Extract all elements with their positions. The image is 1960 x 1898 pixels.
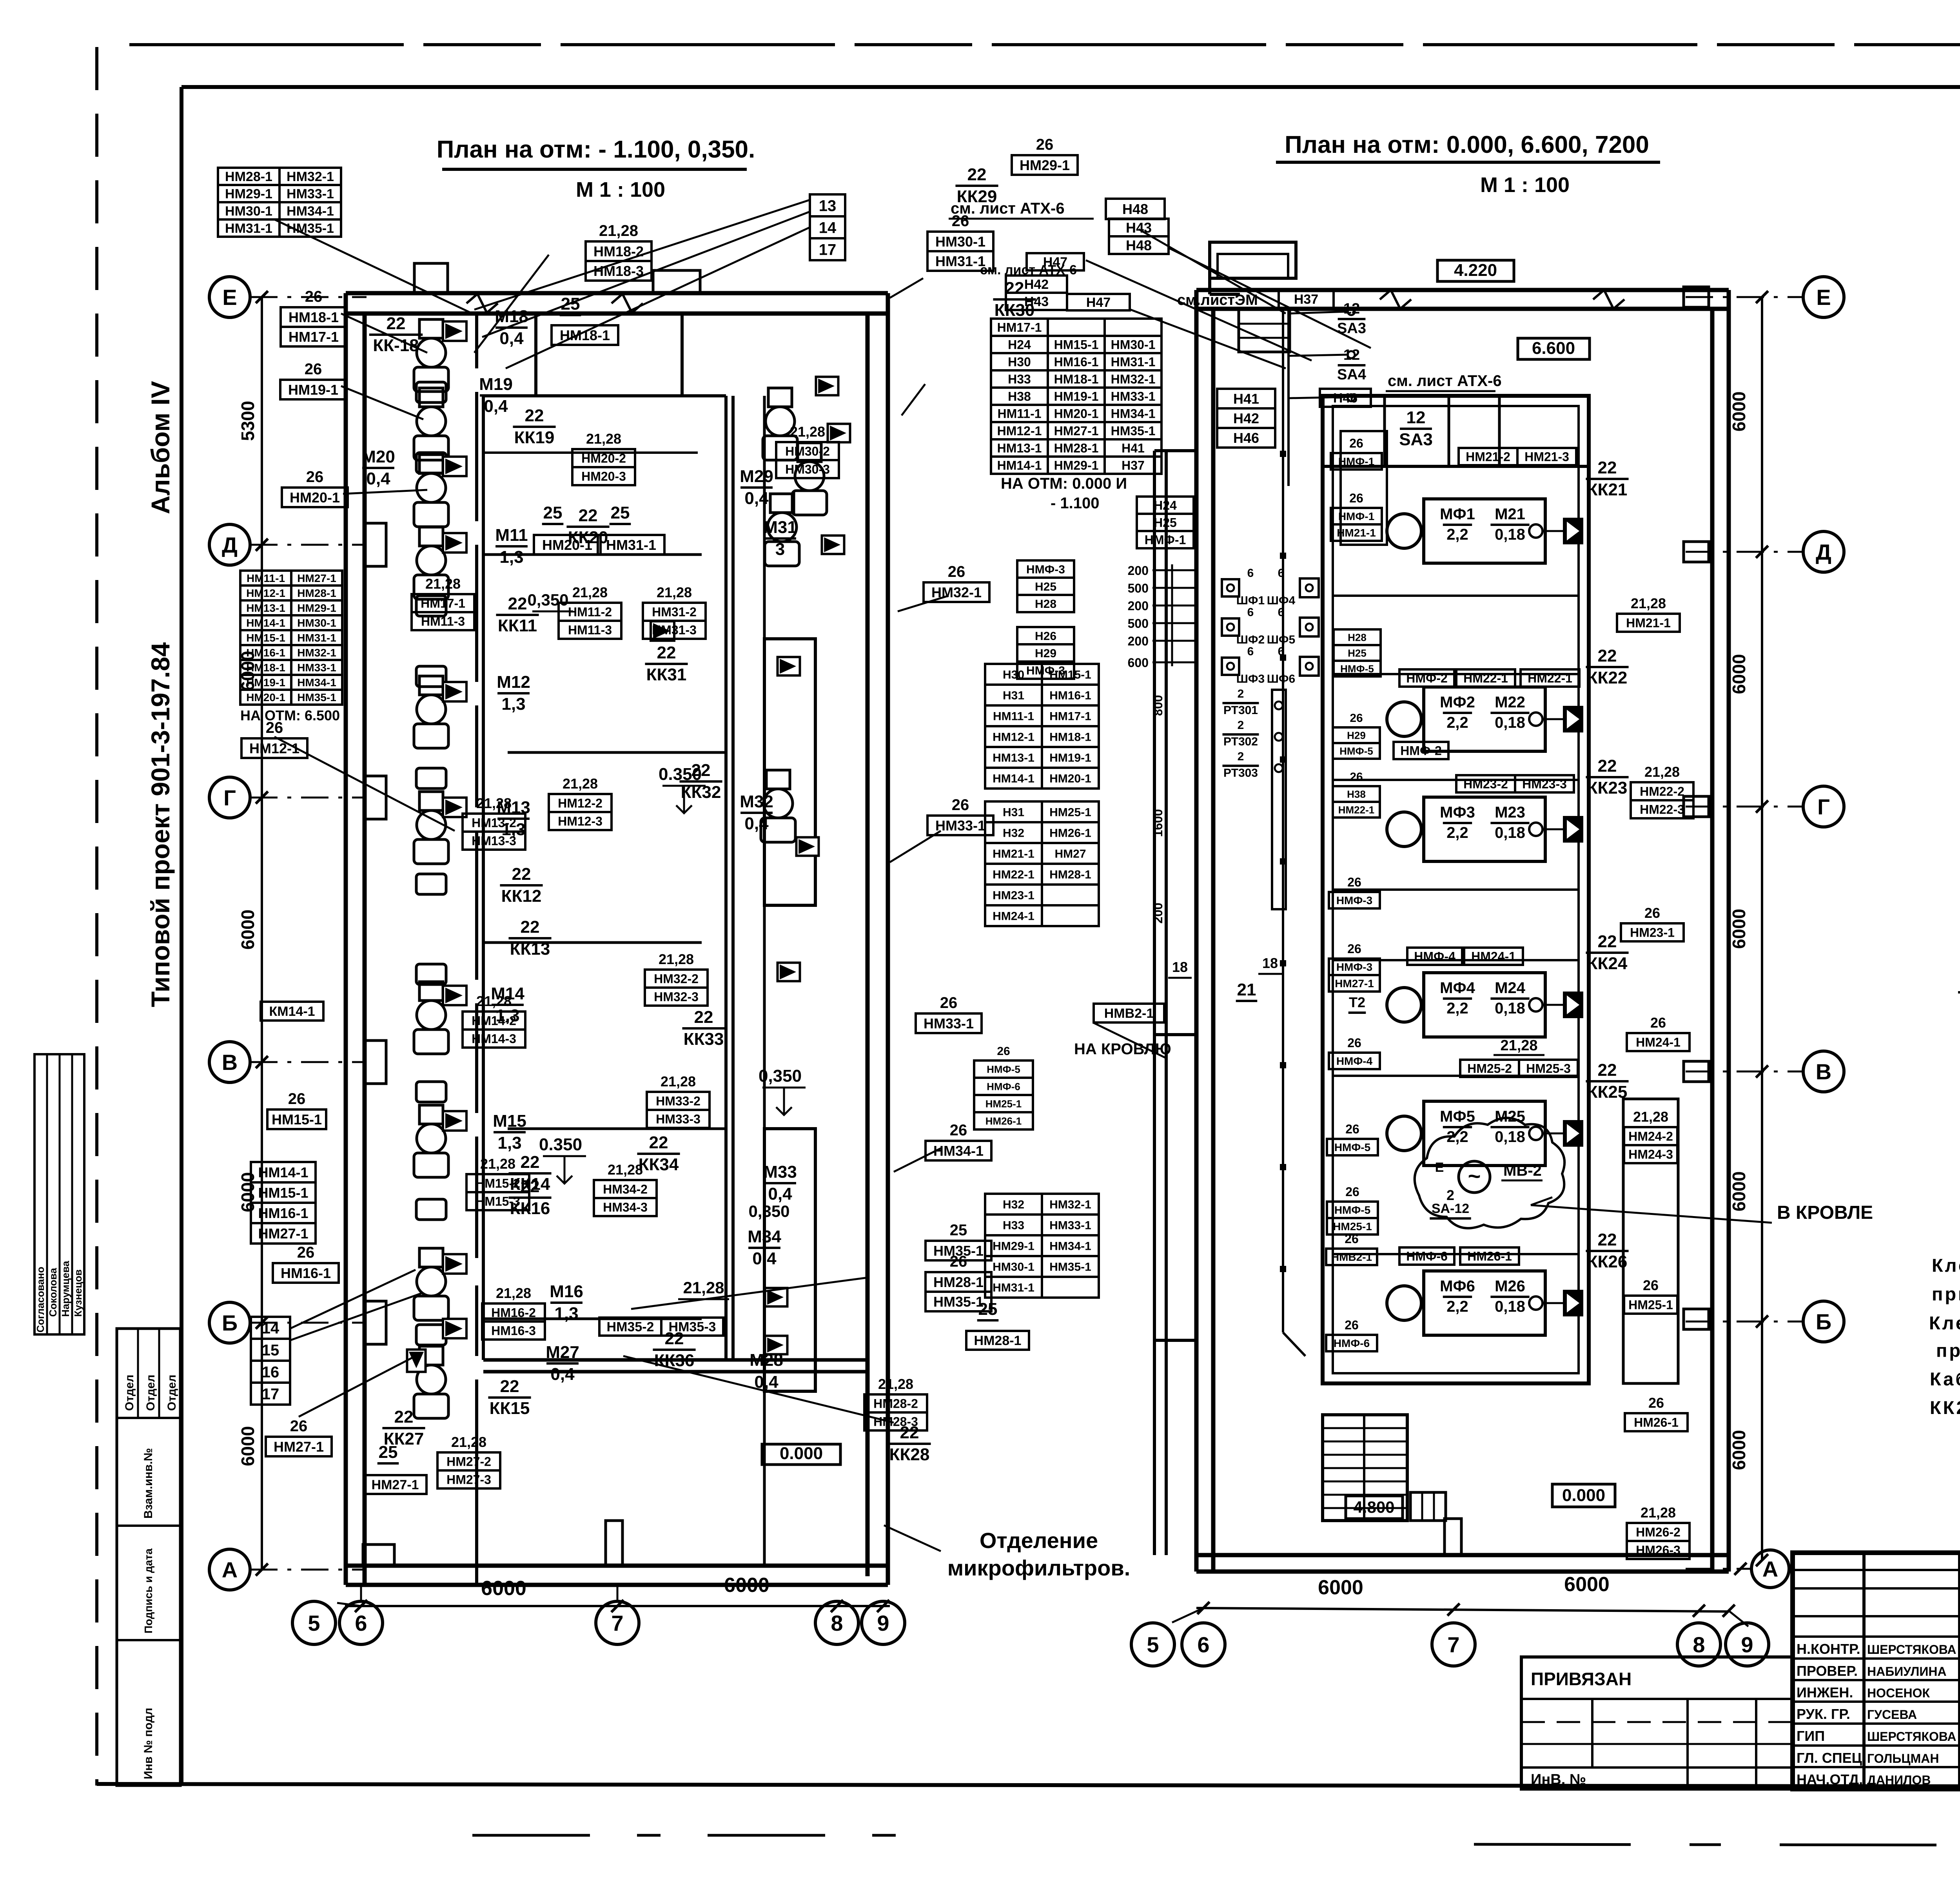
svg-text:НМ17-1: НМ17-1 [997,321,1042,335]
svg-text:26: 26 [1644,905,1660,921]
svg-text:0,4: 0,4 [499,329,524,348]
svg-text:Н33: Н33 [1008,372,1031,386]
frame top inner line [181,85,1960,89]
svg-text:НМ27-1: НМ27-1 [258,1225,308,1242]
НМВ2-1 на кровлю [1094,1004,1164,1022]
right plan top wall [1196,288,1729,292]
left plan right bay wall [763,396,766,639]
left plan roof stack rects above top wall [414,263,448,293]
svg-text:Инв № подл: Инв № подл [142,1708,155,1779]
svg-text:КК33: КК33 [684,1030,724,1049]
svg-text:22: 22 [512,865,531,884]
svg-text:21,28: 21,28 [1500,1037,1537,1054]
svg-text:Н41: Н41 [1233,391,1259,407]
frame top outer line [129,43,1960,46]
svg-text:Н43: Н43 [1126,219,1152,236]
svg-text:0,18: 0,18 [1495,526,1525,543]
bottom small column right plan [1445,1519,1461,1555]
svg-text:НМ19-1: НМ19-1 [246,676,285,689]
svg-text:М20: М20 [361,447,395,466]
microfilter МФ6 [1424,1271,1545,1335]
elevation box 4.220 above top wall [1437,260,1514,281]
svg-text:НАБИУЛИНА: НАБИУЛИНА [1867,1664,1947,1679]
svg-text:200: 200 [1128,599,1149,613]
svg-text:26: 26 [997,1045,1010,1058]
svg-text:В: В [1816,1059,1831,1084]
svg-text:21,28: 21,28 [599,222,638,239]
svg-text:НМ35-2: НМ35-2 [607,1320,654,1334]
svg-text:НМ13-2: НМ13-2 [472,816,516,830]
svg-text:НМ15-1: НМ15-1 [246,632,285,644]
svg-text:НМ33-1: НМ33-1 [287,187,334,201]
cluster table B [985,664,1042,685]
svg-text:5300: 5300 [238,401,258,441]
svg-text:НМ25-1: НМ25-1 [1049,806,1091,819]
svg-text:НМ19-1: НМ19-1 [288,382,338,398]
left margin approval block Согласовано [34,1054,84,1334]
axis line Д left plan [250,544,367,546]
svg-text:2,2: 2,2 [1446,1298,1468,1315]
svg-text:НМ35-3: НМ35-3 [669,1320,716,1334]
right plan bottom dim line [1196,1608,1729,1612]
microfilter МФ5 [1424,1101,1545,1166]
svg-text:НМ35-1: НМ35-1 [1111,424,1156,438]
svg-text:ШФ2: ШФ2 [1236,633,1265,646]
svg-text:КК22: КК22 [1587,668,1628,687]
svg-text:SA-12: SA-12 [1432,1201,1469,1216]
svg-text:НМ21-1: НМ21-1 [1337,527,1376,539]
svg-text:НМ12-1: НМ12-1 [993,731,1034,743]
svg-text:НМ20-1: НМ20-1 [542,537,592,553]
svg-text:26: 26 [1349,436,1363,450]
left plan big label table top-left [218,168,279,185]
svg-text:НМ20-1: НМ20-1 [1054,407,1099,421]
cable junction hooks [1348,308,1355,315]
svg-text:НМ11-1: НМ11-1 [993,710,1034,723]
svg-text:НМ28-1: НМ28-1 [974,1333,1022,1348]
left plan right bay tank 2 [764,1129,815,1391]
svg-text:НМ32-1: НМ32-1 [1111,372,1156,386]
svg-text:6000: 6000 [1729,1430,1749,1470]
svg-text:Н25: Н25 [1348,647,1367,659]
svg-text:Типовой проект 901-3-197.8: Типовой проект 901-3-197.84 [146,642,175,1007]
svg-text:Н41: Н41 [1122,441,1145,455]
svg-text:18: 18 [1262,955,1278,971]
elevation box 0.000 right plan [1552,1484,1615,1507]
left plan pump chain extra bodies [416,382,446,402]
elevation box 4.800 [1346,1496,1403,1519]
svg-text:ШФ4: ШФ4 [1267,594,1296,607]
svg-text:НМ31-3: НМ31-3 [652,623,697,637]
svg-text:18: 18 [1172,959,1188,975]
svg-text:13: 13 [819,197,837,214]
svg-text:План на отм: - 1.100, 0,350: План на отм: - 1.100, 0,350. [437,136,755,163]
svg-text:Е: Е [1816,285,1831,310]
svg-text:МФ6: МФ6 [1440,1278,1475,1295]
svg-text:26: 26 [940,994,958,1012]
svg-text:ГУСЕВА: ГУСЕВА [1867,1708,1917,1722]
svg-text:КК28: КК28 [889,1445,930,1464]
machine hall inner walls [1323,396,1589,1383]
svg-text:Н47: Н47 [1086,295,1111,310]
svg-text:26: 26 [1345,1232,1359,1246]
svg-text:ПРОВЕР.: ПРОВЕР. [1797,1663,1858,1679]
svg-text:21,28: 21,28 [1633,1109,1668,1125]
svg-text:НМ26-1: НМ26-1 [1634,1416,1679,1430]
svg-text:НМ23-1: НМ23-1 [1630,926,1675,940]
svg-text:26: 26 [1347,1036,1361,1050]
svg-text:1,3: 1,3 [497,1133,521,1153]
svg-text:М32: М32 [740,792,773,811]
svg-text:НМВ2-1: НМВ2-1 [1331,1251,1372,1263]
svg-text:Д: Д [222,533,238,557]
svg-text:НМФ-5: НМФ-5 [1334,1204,1370,1216]
svg-text:НМ29-1: НМ29-1 [297,602,336,614]
svg-text:Кабель к клеммным коробка: Кабель к клеммным коробкам КК11÷ КК16, К… [1930,1369,1960,1389]
svg-text:26: 26 [948,563,965,580]
svg-text:ШЕРСТЯКОВА: ШЕРСТЯКОВА [1867,1729,1956,1744]
svg-text:25: 25 [561,294,580,314]
svg-text:2: 2 [1238,687,1244,700]
svg-text:Н48: Н48 [1122,201,1148,217]
svg-text:МФ5: МФ5 [1440,1108,1475,1125]
svg-text:ШФ5: ШФ5 [1267,633,1295,646]
svg-text:22: 22 [500,1377,519,1396]
svg-text:26: 26 [290,1418,308,1435]
title block signature rows [1793,1657,1960,1660]
svg-text:ИНЖЕН.: ИНЖЕН. [1797,1684,1853,1700]
svg-text:КК12: КК12 [501,886,542,906]
right wall pilaster tabs at grid rows [1684,287,1709,307]
svg-text:НМ16-1: НМ16-1 [246,647,285,659]
svg-text:22: 22 [521,1153,540,1172]
svg-text:НМ14-1: НМ14-1 [246,617,285,629]
svg-text:2: 2 [1446,1187,1454,1203]
svg-text:Соколова: Соколова [47,1268,59,1317]
svg-text:НМ27: НМ27 [1054,847,1086,860]
svg-text:НМ32-2: НМ32-2 [654,972,699,986]
svg-text:ШФ1: ШФ1 [1236,594,1265,607]
привязан table [1521,1657,1793,1789]
cluster leader lines [1086,260,1312,361]
svg-text:Н43: Н43 [1024,294,1049,309]
svg-text:НМ28-1: НМ28-1 [1054,441,1099,455]
svg-text:НМ34-1: НМ34-1 [1111,407,1156,421]
svg-text:Н38: Н38 [1008,390,1031,404]
svg-text:22: 22 [387,314,406,333]
svg-text:НМ13-3: НМ13-3 [472,834,516,848]
svg-text:Н46: Н46 [1233,430,1259,446]
left plan grid axis circles [209,277,250,317]
svg-text:НМФ-5: НМФ-5 [1340,663,1374,674]
svg-text:НМ18-1: НМ18-1 [289,309,339,325]
svg-text:0,18: 0,18 [1495,1128,1525,1146]
svg-text:22: 22 [1598,756,1617,776]
svg-text:17: 17 [262,1385,279,1403]
svg-text:НМ31-2: НМ31-2 [652,605,697,619]
left plan central hall left wall [482,396,485,1360]
svg-text:16: 16 [262,1363,279,1381]
microfilter МФ4 [1424,973,1545,1037]
svg-text:26: 26 [1036,136,1054,153]
svg-text:500: 500 [1128,616,1149,631]
svg-text:21,28: 21,28 [480,1156,515,1172]
svg-text:4.800: 4.800 [1353,1498,1394,1516]
svg-text:НМ21-2: НМ21-2 [1466,450,1510,464]
svg-text:ДАНИЛОВ: ДАНИЛОВ [1867,1773,1931,1787]
svg-text:12: 12 [1406,408,1426,427]
left plan bottom wall columns [363,1545,394,1566]
svg-text:НМ28-2: НМ28-2 [873,1397,918,1411]
svg-text:План на отм: 0.000, 6.600: План на отм: 0.000, 6.600, 7200 [1285,131,1649,158]
svg-text:Н25: Н25 [1154,516,1177,530]
svg-text:НМ15-1: НМ15-1 [1054,338,1099,352]
svg-text:12: 12 [1343,347,1360,363]
svg-text:НМВ2-1: НМВ2-1 [1104,1006,1154,1021]
svg-text:26: 26 [305,361,322,378]
svg-text:М12: М12 [497,673,530,692]
svg-text:26: 26 [1347,942,1361,956]
svg-text:6: 6 [355,1611,367,1635]
cluster: Н43 Н48 stack [1109,219,1169,236]
svg-text:6000: 6000 [1729,392,1749,431]
svg-text:НМ30-1: НМ30-1 [297,617,336,629]
right plan vertical dim chain [1761,297,1763,1560]
svg-text:26: 26 [297,1244,315,1261]
svg-text:21,28: 21,28 [657,584,692,600]
svg-text:Н32: Н32 [1003,827,1024,839]
svg-text:2,2: 2,2 [1446,526,1468,543]
svg-text:0,350: 0,350 [748,1202,789,1220]
svg-text:НМ17-1: НМ17-1 [1049,710,1091,723]
svg-text:Кузнецов: Кузнецов [72,1269,84,1317]
svg-text:Н46: Н46 [1333,391,1357,406]
svg-text:Б: Б [1816,1309,1831,1334]
svg-text:НМ20-3: НМ20-3 [581,470,626,484]
svg-text:Альбом IV: Альбом IV [146,381,175,514]
svg-text:НМ29-1: НМ29-1 [225,187,272,201]
svg-text:Подпись и дата: Подпись и дата [142,1548,154,1633]
svg-text:1,3: 1,3 [554,1304,578,1323]
svg-text:6: 6 [1278,567,1285,580]
svg-text:НА КРОВЛЮ: НА КРОВЛЮ [1074,1041,1171,1058]
svg-text:КК34: КК34 [639,1155,679,1174]
svg-text:НМ27-1: НМ27-1 [1054,424,1099,438]
svg-text:21,28: 21,28 [661,1073,696,1089]
title block upper small rows [1793,1569,1960,1571]
svg-text:НМФ-3: НМФ-3 [1336,894,1372,906]
svg-text:НМ32-1: НМ32-1 [1049,1198,1091,1211]
svg-text:приварить к трубе.: приварить к трубе. [1936,1340,1960,1361]
svg-text:НМ27-3: НМ27-3 [446,1473,491,1487]
svg-text:ИнВ. №: ИнВ. № [1531,1771,1586,1788]
svg-text:КК15: КК15 [490,1399,530,1418]
svg-text:8: 8 [1693,1632,1705,1657]
svg-text:200: 200 [1151,903,1165,923]
svg-text:НМ33-3: НМ33-3 [656,1112,701,1126]
svg-text:НМ26-1: НМ26-1 [1049,827,1091,839]
svg-text:НМ15-3: НМ15-3 [475,1195,520,1209]
right plan bottom wall [1196,1553,1729,1557]
svg-text:ГЛ. СПЕЦ: ГЛ. СПЕЦ [1797,1750,1862,1766]
svg-text:НМ11-2: НМ11-2 [568,605,612,619]
svg-text:21,28: 21,28 [586,431,621,447]
svg-text:22: 22 [521,917,540,937]
svg-text:НМ12-1: НМ12-1 [249,740,299,756]
svg-text:М28: М28 [750,1351,783,1370]
svg-text:Е: Е [222,285,237,310]
svg-text:М27: М27 [546,1343,579,1362]
svg-text:21,28: 21,28 [1631,595,1666,611]
svg-text:НМ22-1: НМ22-1 [1463,671,1508,685]
svg-text:НМ33-1: НМ33-1 [924,1015,974,1031]
svg-text:НМФ-3: НМФ-3 [1026,563,1065,576]
svg-text:22: 22 [394,1407,414,1427]
svg-text:НА ОТМ: 6.500: НА ОТМ: 6.500 [240,707,340,723]
bottom scan artifact dashed line [472,1834,898,1837]
svg-text:26: 26 [1643,1277,1659,1293]
svg-text:НМ34-1: НМ34-1 [1049,1240,1091,1253]
svg-text:21: 21 [1237,980,1256,999]
svg-text:НМ22-1: НМ22-1 [993,868,1034,881]
svg-text:НМ20-1: НМ20-1 [246,691,285,703]
svg-text:НМ20-1: НМ20-1 [290,489,340,506]
svg-text:6000: 6000 [481,1577,526,1600]
svg-text:НМФ-2: НМФ-2 [1406,671,1448,685]
label boxes 13 14 17 stack [810,194,845,216]
svg-text:НМ22-3: НМ22-3 [1640,803,1684,817]
cluster table D [985,1194,1042,1215]
svg-text:Клеммные коробки КК11,КК19,: Клеммные коробки КК11,КК19, КК20, КК27÷К… [1929,1312,1960,1333]
svg-text:М34: М34 [748,1227,781,1246]
svg-text:Н24: Н24 [1008,338,1031,352]
svg-text:В КРОВЛЕ: В КРОВЛЕ [1777,1202,1873,1223]
svg-text:7: 7 [611,1611,623,1635]
svg-text:Н48: Н48 [1126,237,1152,253]
svg-text:НМ30-1: НМ30-1 [993,1260,1034,1273]
svg-text:НАЧ.ОТД.: НАЧ.ОТД. [1797,1771,1863,1787]
svg-text:25: 25 [611,503,630,522]
svg-text:НМ22-2: НМ22-2 [1640,785,1684,799]
svg-text:26: 26 [1648,1395,1664,1411]
svg-text:НМФ-6: НМФ-6 [987,1080,1020,1092]
svg-text:2: 2 [1238,750,1244,763]
svg-text:Т2: Т2 [1349,994,1365,1010]
svg-text:НМ24-2: НМ24-2 [1628,1129,1673,1144]
generator cloud МВ-2 [1415,1118,1564,1228]
svg-text:2,2: 2,2 [1446,1000,1468,1017]
svg-text:Е: Е [1435,1160,1444,1175]
svg-text:МФ4: МФ4 [1440,979,1475,997]
svg-text:НМ32-1: НМ32-1 [287,169,334,184]
svg-text:6000: 6000 [1729,654,1749,694]
svg-text:6: 6 [1278,645,1285,658]
svg-text:Н24: Н24 [1154,499,1177,513]
svg-text:21,28: 21,28 [790,424,825,440]
microfilter МФ1 [1424,499,1545,563]
svg-text:НМ25-1: НМ25-1 [1628,1298,1673,1312]
svg-text:НМ33-1: НМ33-1 [1049,1219,1091,1232]
svg-text:КМ14-1: КМ14-1 [269,1004,315,1019]
svg-text:1,3: 1,3 [501,694,525,714]
svg-text:А: А [222,1557,238,1582]
svg-text:НМ13-1: НМ13-1 [246,602,285,614]
svg-text:Клеммные коробки КК12÷КК16,: Клеммные коробки КК12÷КК16, КК18, КК21÷ … [1932,1255,1960,1276]
svg-text:НМ18-1: НМ18-1 [560,327,610,343]
svg-text:Н28: Н28 [1348,631,1367,643]
svg-text:Н31: Н31 [1003,689,1024,702]
svg-text:Н32: Н32 [1003,1198,1024,1211]
svg-text:НМ13-1: НМ13-1 [993,751,1034,764]
svg-text:М15: М15 [493,1111,526,1131]
svg-text:НМ11-1: НМ11-1 [997,407,1041,421]
svg-text:НМ27-1: НМ27-1 [372,1477,419,1492]
svg-text:6: 6 [1247,606,1254,619]
svg-text:НМ31-1: НМ31-1 [1111,355,1156,369]
ШФ boxes [1222,579,1239,596]
svg-text:НМ18-1: НМ18-1 [1049,731,1091,743]
svg-text:6: 6 [1197,1632,1209,1657]
svg-text:НМ27-1: НМ27-1 [274,1439,324,1455]
svg-text:МФ3: МФ3 [1440,804,1475,821]
stairs right plan [1323,1415,1407,1521]
svg-text:КК36: КК36 [654,1351,695,1370]
title block vertical lines [1862,1553,1866,1789]
svg-text:Согласовано: Согласовано [34,1267,46,1332]
svg-text:Н33: Н33 [1003,1219,1024,1232]
svg-text:НМ26-1: НМ26-1 [1467,1249,1512,1264]
svg-text:КК13: КК13 [510,939,550,959]
svg-text:НМ23-1: НМ23-1 [993,889,1034,902]
svg-text:6000: 6000 [238,1426,258,1466]
svg-text:НМ20-2: НМ20-2 [581,451,626,466]
svg-text:НМ31-1: НМ31-1 [993,1281,1034,1294]
svg-text:21,28: 21,28 [878,1376,913,1392]
svg-text:26: 26 [1350,770,1363,783]
svg-text:НМ19-1: НМ19-1 [1049,751,1091,764]
svg-text:НМ16-1: НМ16-1 [1054,355,1099,369]
svg-text:- 1.100: - 1.100 [1051,495,1100,512]
svg-text:26: 26 [1350,712,1363,725]
svg-text:0.000: 0.000 [780,1444,823,1463]
svg-text:НМ25-2: НМ25-2 [1467,1062,1512,1076]
svg-text:0,4: 0,4 [366,469,390,488]
svg-text:НМ34-1: НМ34-1 [933,1143,984,1159]
svg-text:22: 22 [1598,646,1617,665]
svg-text:Отдел: Отдел [144,1375,157,1411]
axis line Г left plan [250,797,367,799]
svg-text:М29: М29 [740,467,773,486]
svg-text:НМ12-2: НМ12-2 [558,796,603,810]
svg-text:Н25: Н25 [1035,580,1056,593]
svg-text:21,28: 21,28 [476,795,512,811]
svg-text:6.600: 6.600 [1532,339,1575,358]
svg-text:НМ33-1: НМ33-1 [1111,390,1156,404]
svg-text:НМ28-1: НМ28-1 [933,1274,984,1290]
svg-text:НМ35-1: НМ35-1 [297,691,336,703]
svg-text:0,350: 0,350 [759,1066,802,1086]
svg-text:КК19: КК19 [514,428,555,447]
svg-text:Н30: Н30 [1008,355,1031,369]
svg-text:КК23: КК23 [1587,778,1628,798]
svg-text:НМ14-1: НМ14-1 [997,459,1042,473]
elevation box 6.600 [1518,338,1590,359]
svg-text:21,28: 21,28 [496,1285,531,1301]
svg-text:НМ18-3: НМ18-3 [593,263,644,279]
svg-text:1,3: 1,3 [499,547,523,567]
svg-text:НМФ-5: НМФ-5 [1334,1141,1370,1153]
svg-text:НМ25-1: НМ25-1 [985,1098,1022,1109]
